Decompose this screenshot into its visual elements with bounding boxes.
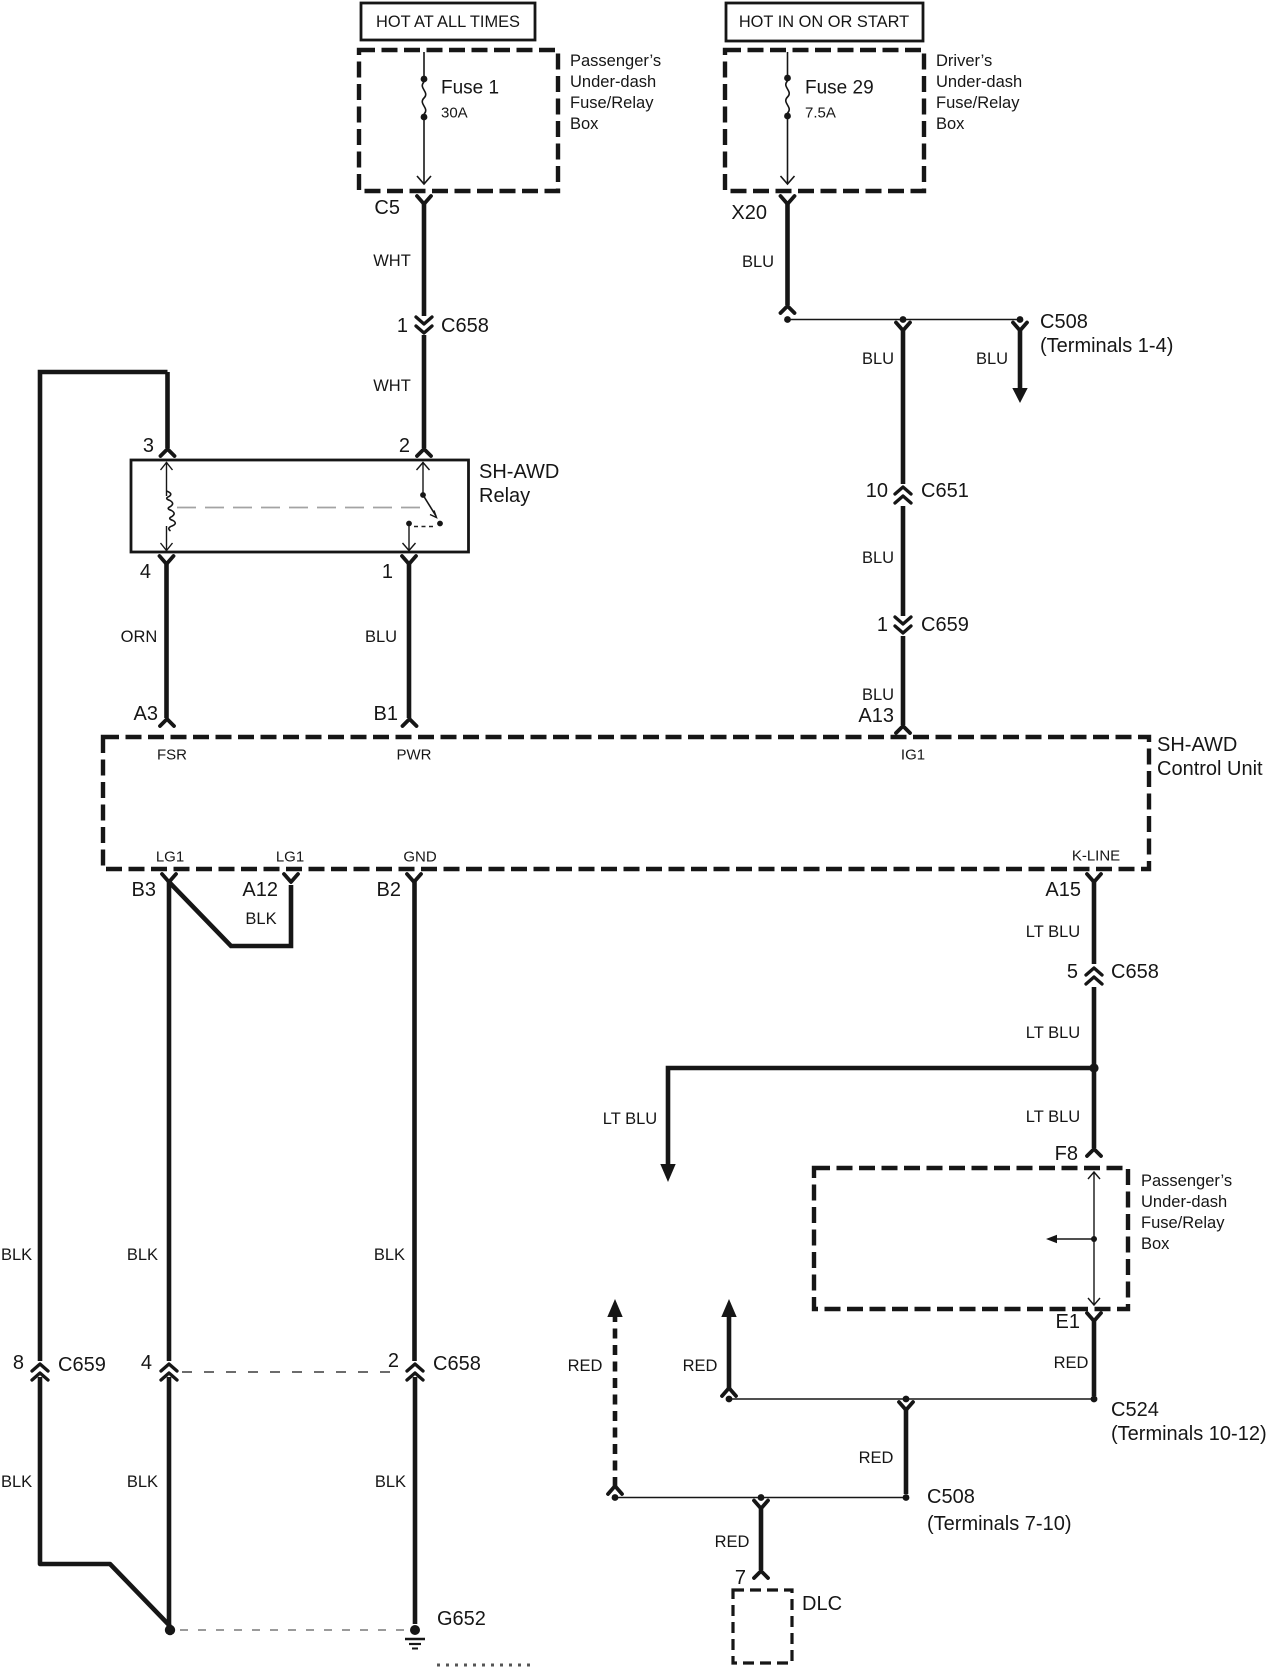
wire: fuse 29 output arrow [787,119,789,183]
svg-text:BLK: BLK [245,910,276,928]
branch to C508 (Terminals 1-4) [1013,323,1027,331]
svg-text:BLU: BLU [862,686,894,704]
svg-text:Under-dash: Under-dash [1141,1193,1227,1211]
svg-text:SH-AWD: SH-AWD [479,461,559,483]
svg-text:8: 8 [13,1352,24,1374]
control unit pin A3 (male foot) [160,719,174,726]
svg-text:C508: C508 [1040,311,1088,333]
fuse box pin F8 (male foot) [1087,1149,1101,1156]
svg-text:HOT IN ON OR START: HOT IN ON OR START [739,13,909,31]
wire BLU: junction down (IG1 feed) [896,323,910,331]
svg-text:BLK: BLK [375,1473,406,1491]
svg-text:BLK: BLK [127,1473,158,1491]
power label box: HOT AT ALL TIMES [361,3,535,40]
svg-text:2: 2 [388,1350,399,1372]
svg-text:B1: B1 [374,703,398,725]
wire RED: down to DLC pin 7 [754,1501,768,1509]
wire WHT: C5 to C658 [422,203,427,316]
dashed ground reference line [180,1629,405,1631]
svg-text:Driver’s: Driver’s [936,52,992,70]
svg-text:4: 4 [141,1352,152,1374]
svg-text:30A: 30A [441,105,468,122]
relay SH-AWD box [131,460,469,552]
svg-text:Fuse/Relay: Fuse/Relay [936,94,1020,112]
wire BLK: left wire 8 (lower) with bend to junction [40,1377,170,1626]
svg-text:LT BLU: LT BLU [1026,1108,1080,1126]
driver under-dash fuse/relay box (top right, dashed) [725,50,924,191]
svg-text:C508: C508 [927,1486,975,1508]
control unit pin B3 (female symbol) [162,874,176,882]
svg-text:Passenger’s: Passenger’s [1141,1172,1232,1190]
relay pin 2 (male symbol) [417,449,431,456]
fuse F1 (Fuse 1 30A) [421,76,428,83]
svg-text:Passenger’s: Passenger’s [570,52,661,70]
inline connector C658 pin 5 [1086,968,1102,984]
wire BLK: B3 down (upper) [167,881,172,1361]
svg-text:RED: RED [568,1357,603,1375]
relay pin 1 (female symbol) [402,556,416,564]
relay coil [166,462,168,496]
svg-text:C658: C658 [441,315,489,337]
svg-text:LT BLU: LT BLU [603,1110,657,1128]
svg-text:(Terminals 1-4): (Terminals 1-4) [1040,335,1173,357]
svg-text:A3: A3 [134,703,158,725]
svg-text:LG1: LG1 [156,849,184,866]
svg-text:K-LINE: K-LINE [1072,848,1120,865]
wire: fuse 1 output arrow [423,120,425,183]
inline connector C659 pin 8 [32,1364,48,1380]
node: K-line branch junction [1089,1063,1098,1072]
svg-text:C659: C659 [921,614,969,636]
fuse box pin E1 (female symbol) [1087,1313,1101,1321]
wire BLU: C659 to A13 [901,636,906,725]
internal link F8 to E1 [1093,1172,1095,1305]
wire ORN: relay pin 4 to A3 [164,563,169,718]
wire LT BLU: A15 down [1092,881,1097,964]
svg-text:C659: C659 [58,1354,106,1376]
svg-text:1: 1 [397,315,408,337]
svg-text:X20: X20 [731,202,767,224]
svg-text:RED: RED [1054,1354,1089,1372]
svg-text:A13: A13 [858,705,894,727]
relay pin 3 (male symbol) [161,449,175,456]
svg-text:ORN: ORN [121,628,158,646]
svg-text:3: 3 [143,435,154,457]
svg-text:GND: GND [403,849,437,866]
svg-text:LT BLU: LT BLU [1026,923,1080,941]
svg-text:Under-dash: Under-dash [936,73,1022,91]
svg-text:C658: C658 [1111,961,1159,983]
svg-text:G652: G652 [437,1608,486,1630]
relay mechanical link (dashed) [177,507,420,509]
wire: feed into fuse 1 [423,52,425,76]
svg-text:(Terminals 7-10): (Terminals 7-10) [927,1513,1071,1535]
node: C524 tie line [729,1398,1094,1400]
inline connector C658 pin 1 [416,317,432,333]
svg-text:(Terminals 10-12): (Terminals 10-12) [1111,1423,1267,1445]
wire BLU: X20 down to junction [785,203,790,305]
svg-text:WHT: WHT [373,252,411,270]
svg-text:Fuse/Relay: Fuse/Relay [570,94,654,112]
svg-text:BLK: BLK [1,1246,32,1264]
svg-text:Control Unit: Control Unit [1157,758,1263,780]
node: bottom junction [165,1625,175,1635]
wire end foot at junction [781,306,795,313]
svg-text:Box: Box [570,115,599,133]
svg-text:BLU: BLU [742,253,774,271]
svg-text:LT BLU: LT BLU [1026,1024,1080,1042]
svg-text:Fuse 1: Fuse 1 [441,78,499,99]
wire BLK: B2 down (upper) [412,881,417,1361]
footer smudge [437,1664,530,1667]
wire LT BLU: branch left with arrow [668,1068,1094,1164]
svg-text:C5: C5 [374,197,400,219]
wire RED: dashed arrow up [608,1486,622,1494]
wire LT BLU: C658 to F8 [1092,987,1097,1148]
svg-text:B3: B3 [132,879,156,901]
svg-text:LG1: LG1 [276,849,304,866]
inline connector C651 pin 10 [895,487,911,503]
svg-text:HOT AT ALL TIMES: HOT AT ALL TIMES [376,13,520,31]
svg-text:BLU: BLU [862,549,894,567]
passenger under-dash fuse/relay box (top left, dashed) [359,50,558,191]
wire: feed into fuse 29 [787,52,789,75]
alignment dashes between connectors 4 and 2 [182,1371,400,1373]
wire BLK: B2 down to ground (lower) [413,1377,418,1624]
svg-text:C524: C524 [1111,1399,1159,1421]
svg-text:FSR: FSR [157,747,187,764]
svg-text:5: 5 [1067,961,1078,983]
svg-text:BLU: BLU [862,350,894,368]
node: BLU junction row [784,316,791,323]
svg-text:RED: RED [683,1357,718,1375]
inline connector C658 pin 2 [407,1364,423,1380]
svg-text:Box: Box [936,115,965,133]
svg-text:A12: A12 [242,879,278,901]
svg-text:Fuse/Relay: Fuse/Relay [1141,1214,1225,1232]
fuse F29 (Fuse 29 7.5A) [784,75,791,82]
node: C508 tie line [615,1497,906,1499]
ground G652 [410,1625,420,1635]
SH-AWD control unit box (dashed) [103,737,1149,869]
relay pin 4 (female symbol) [160,556,174,564]
svg-text:10: 10 [866,480,888,502]
wire RED: C524 to C508 branch [899,1402,913,1410]
svg-text:Fuse 29: Fuse 29 [805,78,874,99]
svg-text:C658: C658 [433,1353,481,1375]
control unit pin B1 (male foot) [403,719,417,726]
svg-text:4: 4 [140,561,151,583]
inline connector C659 pin 4 [161,1364,177,1380]
wire BLU: C651 to C659 [901,506,906,616]
svg-text:BLK: BLK [1,1473,32,1491]
svg-text:Box: Box [1141,1235,1170,1253]
DLC box (dashed) [733,1590,792,1663]
svg-text:BLK: BLK [127,1246,158,1264]
wire RED: solid arrow up [722,1388,736,1396]
control unit pin A15 (female symbol) [1087,874,1101,882]
svg-text:RED: RED [715,1533,750,1551]
svg-text:Under-dash: Under-dash [570,73,656,91]
svg-text:IG1: IG1 [901,747,925,764]
inline connector C659 pin 1 [895,617,911,633]
svg-text:1: 1 [382,561,393,583]
svg-text:BLU: BLU [976,350,1008,368]
wire BLK: A12 jog joining B3 [170,883,291,946]
wire BLU: relay pin 1 to B1 [407,563,412,718]
svg-text:SH-AWD: SH-AWD [1157,734,1237,756]
svg-text:WHT: WHT [373,377,411,395]
control unit pin A12 (female symbol) [284,874,298,882]
svg-text:BLK: BLK [374,1246,405,1264]
svg-text:Relay: Relay [479,485,530,507]
relay switch contact [422,462,424,493]
svg-text:1: 1 [877,614,888,636]
svg-text:RED: RED [859,1449,894,1467]
svg-text:C651: C651 [921,480,969,502]
node: internal branch [1091,1236,1097,1242]
svg-text:E1: E1 [1056,1311,1080,1333]
svg-text:A15: A15 [1045,879,1081,901]
svg-text:DLC: DLC [802,1593,842,1615]
svg-text:BLU: BLU [365,628,397,646]
passenger under-dash fuse/relay box (lower, dashed) [814,1168,1128,1309]
wire: relay pin 3 stem [165,372,170,448]
wire RED: E1 down [1092,1320,1097,1396]
control unit pin B2 (female symbol) [407,874,421,882]
svg-text:2: 2 [399,435,410,457]
wire BLK: B3 down (lower) [167,1377,172,1628]
svg-text:PWR: PWR [397,747,432,764]
wire WHT: C658 to relay pin 2 [422,335,427,448]
power label box: HOT IN ON OR START [726,3,923,41]
svg-text:F8: F8 [1055,1143,1078,1165]
svg-text:7: 7 [735,1567,746,1589]
wire: main feed to relay pin 3 (upper segment) [40,372,168,1361]
svg-text:7.5A: 7.5A [805,105,836,122]
svg-text:B2: B2 [377,879,401,901]
